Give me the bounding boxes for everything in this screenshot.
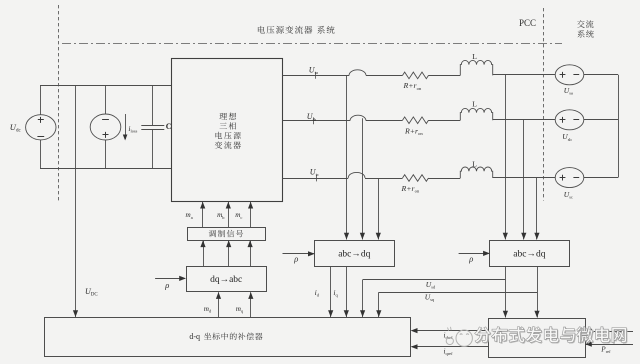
block reference signal generator	[489, 319, 586, 358]
wire phase a	[283, 75, 461, 77]
label Uta	[309, 65, 318, 75]
label: AC system 交流/系统	[577, 20, 594, 37]
wire current tap ib	[360, 118, 365, 239]
wire rho into current abc->dq	[283, 251, 315, 256]
svg-text:C: C	[166, 122, 172, 131]
label R+ron phase b	[404, 126, 423, 136]
wire id iq to compensator	[328, 266, 349, 317]
label C	[166, 122, 172, 131]
decor watermark logo	[446, 327, 472, 347]
resistor R+ron phase a	[403, 72, 429, 79]
wire phase b return to bus	[584, 119, 618, 121]
wire phase b to PCC and source	[493, 119, 556, 121]
label md	[204, 305, 212, 314]
svg-text:ρ: ρ	[164, 280, 169, 290]
wire Usd feedback	[360, 266, 508, 317]
block abc->dq voltage transform	[490, 241, 570, 267]
label idref	[444, 332, 454, 341]
wire phase a to PCC and source	[493, 74, 556, 76]
node terminal tick Utc	[316, 175, 318, 182]
resistor R+ron phase c	[403, 175, 429, 182]
label Usc	[564, 190, 573, 200]
svg-text:ρ: ρ	[293, 254, 298, 264]
node terminal tick Uta	[315, 72, 317, 79]
wire idref into compensator	[411, 328, 489, 333]
block abc->dq current transform	[315, 241, 395, 267]
capacitor C	[141, 85, 164, 169]
wire phase c return to bus	[584, 177, 618, 179]
AC source Usa	[555, 65, 584, 85]
label L phase a	[472, 52, 477, 61]
wire rho into dq->abc	[155, 276, 186, 281]
label iq	[333, 288, 338, 298]
label rho (voltage abc->dq)	[468, 254, 473, 264]
AC source Usb	[555, 110, 584, 130]
wire voltage tap Usa	[503, 75, 508, 240]
label UDC	[85, 287, 98, 298]
wire phase c to PCC and source	[493, 177, 556, 179]
label rho (current abc->dq)	[293, 254, 298, 264]
wire boundary: VSC-system dash-dot separator (horizontal)	[62, 43, 562, 45]
label Usq	[425, 293, 435, 303]
wire md mq from compensator	[216, 292, 254, 317]
wire voltage tap Usb	[521, 120, 526, 240]
inductor L phase c	[460, 167, 492, 178]
svg-text:ρ: ρ	[468, 254, 473, 264]
wire boundary: DC-side dashed separator (vertical)	[58, 5, 60, 201]
wire current tap ia	[344, 75, 349, 239]
wire dq->abc outputs to modulator	[200, 240, 252, 266]
node PCC boundary dashed line	[543, 8, 545, 201]
node terminal tick Utb	[313, 117, 315, 124]
current source iloss	[90, 85, 121, 169]
label PCC	[519, 18, 536, 28]
label mc	[235, 211, 242, 220]
wire Pref into reference generator	[585, 342, 633, 347]
block compensator in dq frame	[45, 318, 411, 357]
decor watermark text 分布式发电与微电网	[475, 327, 628, 344]
inductor L phase b	[460, 108, 492, 120]
label Uin	[10, 122, 22, 134]
label Utc	[310, 168, 319, 178]
svg-text:abc→dq: abc→dq	[338, 250, 370, 260]
node pickup loop phase c	[348, 172, 365, 178]
label L phase c	[472, 160, 477, 169]
wire DC positive rail	[40, 85, 171, 87]
block modulation 调制信号	[188, 228, 266, 241]
wire phase b	[283, 120, 461, 122]
label iloss	[128, 124, 137, 134]
label R+ron phase a	[403, 81, 422, 91]
svg-text:L: L	[472, 52, 477, 61]
label R+ron phase c	[401, 184, 420, 194]
label ma	[186, 211, 193, 220]
label iqref	[444, 348, 454, 357]
label: VSC system title 电压源变流器系统	[258, 26, 335, 34]
label Usb	[562, 132, 572, 142]
svg-text:dq→abc: dq→abc	[210, 275, 242, 285]
wire Qref into reference generator	[585, 329, 633, 334]
resistor R+ron phase b	[403, 117, 429, 124]
label L phase b	[472, 99, 477, 108]
converter U1: ideal three-phase VSC box	[172, 59, 283, 202]
AC source Usc	[555, 168, 584, 188]
wire phase c	[283, 178, 461, 180]
label Usd	[426, 280, 436, 290]
svg-text:L: L	[472, 99, 477, 108]
wire phase a return to bus	[584, 74, 618, 76]
label Pref	[600, 345, 611, 354]
wire rho into voltage abc->dq	[459, 251, 490, 256]
label Utb	[307, 112, 317, 122]
wire Usq feedback	[376, 266, 539, 317]
wire current tap ic	[376, 178, 381, 240]
wire gating signals ma mb mc into converter	[200, 202, 253, 227]
label mq	[236, 305, 244, 314]
wire UDC sense tap from positive rail	[73, 85, 78, 318]
svg-text:PCC: PCC	[519, 18, 536, 28]
svg-text:d-q: d-q	[189, 332, 200, 341]
block dq->abc transform	[187, 267, 267, 292]
inductor L phase a	[460, 60, 492, 75]
wire iqref into compensator	[411, 344, 489, 349]
wire voltage tap Usc	[534, 178, 539, 240]
wire AC neutral bus	[618, 75, 620, 178]
svg-text:L: L	[472, 160, 477, 169]
voltage source Uin (DC source)	[26, 85, 56, 169]
wire DC negative rail	[40, 168, 171, 170]
label mb	[217, 211, 225, 220]
label rho (dq->abc)	[164, 280, 169, 290]
node pickup loop phase b	[350, 115, 366, 121]
label id	[315, 288, 320, 298]
svg-text:abc→dq: abc→dq	[513, 250, 545, 260]
label Usa	[564, 86, 573, 96]
node pickup loop phase a	[349, 70, 366, 76]
label iloss current arrow	[123, 114, 128, 141]
